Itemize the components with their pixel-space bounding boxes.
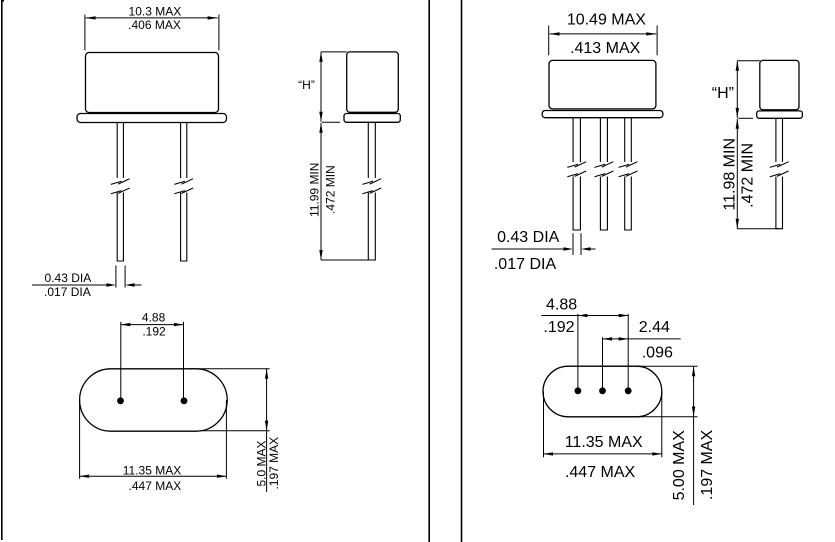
lead 2 front view (right) — [600, 118, 607, 230]
lead 2 break marks — [174, 179, 193, 194]
dimension 10.49 MAX extension lines — [549, 26, 657, 56]
svg-text:.096: .096 — [642, 344, 673, 361]
dimension 5.00 MAX line and arrows (right) — [693, 366, 695, 505]
side view lead (left) — [368, 122, 375, 260]
svg-text:.017 DIA: .017 DIA — [494, 256, 557, 273]
svg-text:4.88: 4.88 — [142, 311, 166, 325]
dimension 10.3 MAX line and arrows — [86, 17, 218, 19]
svg-text:.472 MIN: .472 MIN — [324, 165, 338, 214]
svg-text:2.44: 2.44 — [639, 319, 670, 336]
bottom view pin 1 dot (left) — [117, 397, 124, 404]
svg-text:5.00 MAX: 5.00 MAX — [671, 430, 688, 501]
dimension 4.88 extension lines (left) — [121, 322, 184, 401]
frame divider 2 — [461, 0, 463, 542]
lead 2 break marks (right) — [595, 162, 614, 177]
dimension 10.3 MAX extension lines — [85, 15, 219, 51]
dimension H line and arrows (right) — [736, 61, 738, 118]
svg-text:.472 MIN: .472 MIN — [739, 143, 756, 208]
frame left border — [1, 0, 4, 540]
svg-text:.413 MAX: .413 MAX — [570, 40, 641, 57]
bottom view pin 2 dot (left) — [181, 397, 188, 404]
dimension 4.88 extension lines (right) — [578, 314, 628, 391]
side view body (left) — [347, 52, 399, 112]
bottom view pin 2 dot (right) — [599, 387, 606, 394]
crystal base flange front view (right) — [542, 111, 663, 118]
side view lead break marks (right) — [770, 162, 789, 177]
svg-text:4.88: 4.88 — [546, 297, 577, 314]
side view lead break marks (left) — [362, 179, 381, 194]
side view flange (right) — [757, 111, 803, 118]
crystal body front view (left) — [86, 53, 219, 113]
dimension 5.0 MAX extension lines (left) — [190, 369, 270, 431]
svg-text:0.43 DIA: 0.43 DIA — [497, 229, 560, 246]
lead 1 front view (right) — [573, 118, 580, 230]
frame divider 1 — [428, 0, 430, 542]
dimension 2.44 line and arrows (right) — [603, 338, 681, 340]
svg-text:“H”: “H” — [712, 85, 734, 102]
dimension 5.00 MAX extension lines (right) — [600, 366, 698, 416]
svg-text:.447 MAX: .447 MAX — [565, 464, 636, 481]
svg-text:.406 MAX: .406 MAX — [128, 18, 181, 32]
svg-text:10.3 MAX: 10.3 MAX — [129, 4, 182, 18]
svg-text:.192: .192 — [142, 324, 166, 338]
svg-text:“H”: “H” — [298, 78, 315, 92]
side view lead (right) — [776, 118, 783, 228]
crystal base flange front view (left) — [77, 114, 227, 123]
svg-text:.447 MAX: .447 MAX — [129, 479, 182, 493]
bottom view oval (right) — [543, 366, 662, 417]
side view flange (left) — [344, 114, 400, 123]
dimension 10.49 MAX line and arrows — [550, 33, 657, 35]
crystal body front view (right) — [549, 60, 656, 109]
dimension 5.0 MAX line and arrows (left) — [266, 369, 268, 492]
svg-text:.192: .192 — [543, 319, 574, 336]
svg-text:11.99 MIN: 11.99 MIN — [308, 163, 322, 217]
bottom view pin 1 dot (right) — [575, 387, 582, 394]
dimension 11.99 MIN line and arrows (left) — [320, 123, 322, 260]
dimension 11.98 MIN line and arrows (right) — [736, 119, 738, 229]
dimension 2.44 extension line (right, middle pin) — [602, 337, 604, 391]
dimension 11.35 MAX extension lines (right) — [544, 392, 662, 458]
dimension 11.35 MAX line and arrows (right) — [544, 453, 662, 455]
svg-text:.017 DIA: .017 DIA — [44, 285, 91, 299]
svg-text:.197 MAX: .197 MAX — [267, 437, 281, 490]
lead 1 front view (left) — [117, 123, 123, 262]
dimension H extension lines (left) — [321, 52, 372, 260]
lead 2 front view (left) — [181, 123, 187, 262]
dimension 11.35 MAX line and arrows (left) — [80, 475, 227, 477]
dimension H line and arrows (left) — [320, 52, 322, 122]
lead 3 break marks (right) — [619, 162, 638, 177]
dimension H extension lines (right) — [737, 61, 779, 229]
dimension 0.43 DIA extension lines (left) — [116, 266, 125, 288]
svg-text:.197 MAX: .197 MAX — [699, 429, 716, 500]
dimension 11.35 MAX extension lines (left) — [80, 400, 227, 479]
dimension 4.88 line and arrows (right) — [541, 315, 628, 317]
svg-text:11.35 MAX: 11.35 MAX — [123, 463, 181, 477]
svg-text:0.43 DIA: 0.43 DIA — [45, 271, 92, 285]
dimension 4.88 line and arrows (left) — [121, 324, 184, 326]
dimension 0.43 DIA leader and arrows (right) — [492, 248, 596, 250]
side view body (right) — [760, 60, 799, 109]
lead 1 break marks (right) — [567, 162, 586, 177]
dimension 0.43 DIA leader and arrows (left) — [32, 284, 142, 286]
lead 3 front view (right) — [625, 118, 632, 230]
bottom view oval (left) — [80, 369, 228, 431]
svg-text:11.98 MIN: 11.98 MIN — [721, 138, 738, 211]
bottom view pin 3 dot (right) — [625, 387, 632, 394]
lead 1 break marks — [111, 179, 130, 194]
dimension 0.43 DIA extension lines (right) — [573, 233, 581, 255]
svg-text:11.35 MAX: 11.35 MAX — [565, 434, 643, 451]
svg-text:10.49 MAX: 10.49 MAX — [567, 11, 646, 28]
